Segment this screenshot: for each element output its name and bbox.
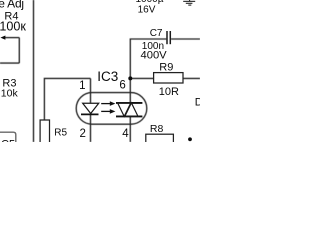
svg-text:D: D (195, 96, 200, 108)
resistor R5 body (40, 120, 49, 146)
wire wiper vertical (18, 38, 20, 64)
wire pin6 vertical (129, 78, 131, 103)
light arrow 1 (101, 101, 115, 106)
wire pin4 vertical (129, 116, 131, 142)
svg-text:C5: C5 (1, 138, 15, 142)
optocoupler IC3 body (76, 93, 147, 125)
svg-text:IC3: IC3 (97, 69, 118, 84)
node junction dot (128, 76, 132, 80)
wire pin1 vertical (90, 78, 92, 103)
svg-text:2: 2 (80, 128, 86, 140)
light arrow 2 (101, 109, 115, 114)
svg-text:10k: 10k (1, 87, 19, 99)
svg-text:400V: 400V (141, 49, 168, 61)
LED triangle (83, 103, 99, 113)
svg-text:4: 4 (122, 128, 129, 140)
resistor R8 body (cut bottom) (146, 134, 174, 146)
wire R9 right (183, 77, 200, 79)
triac bottom bar (116, 115, 142, 117)
wire dot to R9 (130, 77, 153, 79)
svg-text:16V: 16V (138, 5, 156, 16)
LED cathode bar (81, 113, 99, 115)
wire pin2 vertical (90, 114, 92, 142)
wire wiper horizontal (5, 37, 19, 39)
wire R5 branch to pin 1 (44, 78, 90, 120)
svg-text:Voltage Adj: Voltage Adj (0, 0, 24, 11)
svg-text:C7: C7 (150, 28, 163, 39)
svg-text:1: 1 (79, 80, 85, 92)
svg-text:100к: 100к (0, 20, 26, 34)
triac triangle down (118, 103, 131, 117)
svg-text:R5: R5 (54, 128, 67, 139)
wire wiper bottom horizontal (0, 62, 19, 64)
svg-text:R9: R9 (159, 62, 173, 74)
svg-text:6: 6 (119, 80, 125, 92)
node junction dot bottom right (188, 137, 192, 141)
wire long vertical bus (33, 0, 35, 142)
potentiometer wiper arrow (0, 36, 5, 40)
triac triangle up (125, 103, 138, 117)
ground symbol (top right, cut) (183, 0, 195, 5)
svg-text:R8: R8 (150, 123, 164, 135)
wire C7 branch (130, 39, 166, 78)
capacitor C7 plates (166, 31, 168, 44)
svg-text:10R: 10R (159, 86, 179, 98)
wire C7 right (171, 38, 200, 40)
triac top bar (116, 102, 142, 104)
resistor R9 body (154, 73, 183, 83)
component box bottom left (gray) (0, 132, 16, 142)
